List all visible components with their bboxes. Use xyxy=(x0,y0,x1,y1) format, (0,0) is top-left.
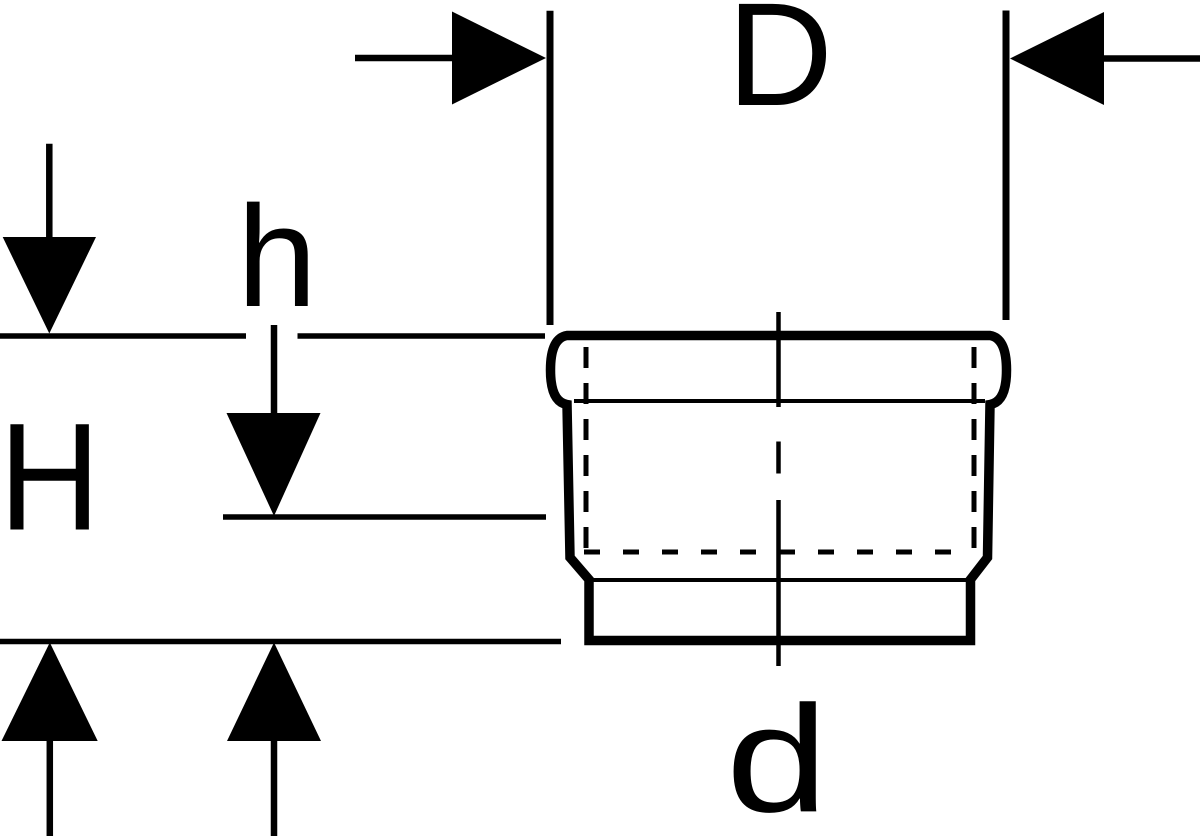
datum line top (level of socket top) xyxy=(0,333,545,339)
datum line middle (level h above base) xyxy=(223,514,546,520)
dimension h bottom arrow xyxy=(227,643,321,837)
fitting spigot shoulder line xyxy=(591,578,969,582)
fitting inner step line (under seal ring) xyxy=(574,399,985,403)
hidden edge: socket bore left wall xyxy=(584,347,589,554)
svg-text:D: D xyxy=(727,0,833,137)
dimension D left arrow xyxy=(355,12,546,105)
datum line bottom (base level) xyxy=(0,639,561,645)
socket fitting outline xyxy=(551,336,1007,641)
dimension D right arrow xyxy=(1010,12,1200,105)
label d xyxy=(726,674,828,839)
dimension H top arrow xyxy=(3,144,96,334)
dimension H bottom arrow xyxy=(2,643,98,837)
dimension h top arrow xyxy=(227,325,321,516)
hidden edge: socket bore right wall xyxy=(972,347,977,554)
extension line right (D) xyxy=(1003,11,1010,321)
svg-text:h: h xyxy=(237,176,317,337)
extension line left (D) xyxy=(547,11,554,325)
hidden edge: socket bottom xyxy=(584,550,974,555)
svg-text:d: d xyxy=(726,674,828,839)
svg-text:H: H xyxy=(0,392,100,563)
label H xyxy=(0,392,100,563)
center line (axis) xyxy=(776,312,781,666)
